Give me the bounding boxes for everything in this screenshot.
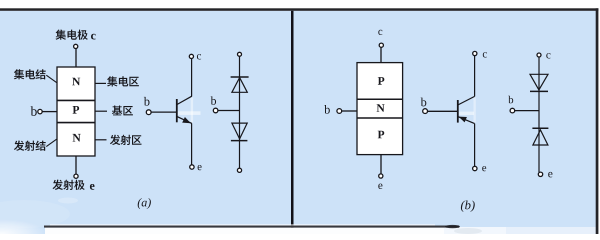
symbol base bar (b) bbox=[457, 100, 459, 123]
region letter N (emitter) bbox=[73, 134, 81, 142]
symbol base wire bbox=[151, 111, 177, 113]
symbol c label (b) bbox=[483, 52, 487, 57]
emitter lead wire bbox=[75, 156, 77, 174]
label e (box b bottom) bbox=[378, 184, 382, 189]
white blob bottom-left corner bbox=[0, 219, 48, 240]
stack base label b bbox=[211, 96, 216, 104]
diode D2 triangle bbox=[232, 123, 247, 139]
集电结 pointer line bbox=[46, 75, 56, 82]
base terminal circle (box b) bbox=[337, 109, 342, 114]
stack top terminal bbox=[238, 52, 242, 56]
faint smudge under emitter label bbox=[58, 198, 78, 204]
label c (box b top) bbox=[378, 30, 382, 35]
stack base terminal (b) bbox=[510, 108, 515, 113]
symbol base label b bbox=[144, 97, 150, 106]
emitter junction line bbox=[57, 122, 95, 124]
jpeg light band (a) vertical bbox=[191, 98, 193, 123]
caption (a) bbox=[138, 198, 151, 209]
diode D4 cathode bar bbox=[532, 127, 548, 129]
label 发射结 bbox=[14, 141, 46, 151]
label 集电结 bbox=[14, 69, 46, 79]
symbol base terminal bbox=[146, 110, 151, 115]
base lead wire (box b) bbox=[342, 110, 357, 112]
collector diagonal bbox=[177, 96, 192, 104]
stack b label (b) bbox=[508, 96, 513, 104]
base label b (box) bbox=[324, 105, 330, 114]
stack base terminal bbox=[213, 108, 218, 113]
jpeg light band (a) horizontal bbox=[178, 111, 201, 115]
stack bottom terminal bbox=[237, 168, 241, 172]
emitter lead wire (b) bbox=[380, 155, 382, 174]
collector terminal (b) bbox=[379, 43, 383, 47]
label 集电极 c bbox=[56, 30, 96, 40]
symbol emitter terminal (b) bbox=[473, 166, 477, 170]
symbol collector terminal (b) bbox=[473, 51, 477, 55]
发射结 pointer line bbox=[46, 139, 56, 146]
stack base wire bbox=[218, 110, 240, 112]
base terminal circle bbox=[38, 109, 42, 113]
symbol b label (b) bbox=[421, 98, 427, 107]
diode D3 cathode bar bbox=[530, 90, 548, 92]
region letter P (collector) bbox=[378, 77, 385, 85]
lower junction line bbox=[357, 117, 403, 119]
bottom rule dark end bbox=[445, 225, 460, 228]
emitter vertical wire bbox=[191, 123, 193, 164]
stack bottom terminal (b) bbox=[538, 172, 542, 176]
collector terminal circle bbox=[74, 44, 78, 48]
emitter diagonal bbox=[177, 116, 192, 123]
symbol e label (b) bbox=[482, 166, 486, 171]
bottom rule highlight bbox=[50, 224, 435, 225]
collector lead wire bbox=[75, 48, 77, 67]
emitter arrowhead (points into base) bbox=[459, 117, 467, 123]
jpeg light band (b) horizontal bbox=[459, 112, 474, 115]
symbol emitter label e bbox=[198, 165, 202, 170]
collector vertical wire (b) bbox=[474, 56, 476, 97]
stack base wire (b) bbox=[515, 110, 539, 112]
emitter arrowhead bbox=[182, 117, 191, 123]
bottom rule bbox=[44, 226, 459, 228]
label 集电区 bbox=[107, 76, 139, 86]
symbol emitter terminal bbox=[190, 165, 194, 169]
base lead wire bbox=[42, 111, 57, 113]
symbol base wire (b) bbox=[428, 110, 458, 112]
region letter P (emitter) bbox=[378, 131, 385, 139]
top border line bbox=[0, 8, 598, 11]
upper junction line bbox=[357, 98, 403, 100]
基区 dash bbox=[95, 110, 107, 112]
symbol collector label c bbox=[197, 54, 201, 59]
faint light band lower-left bbox=[0, 200, 70, 228]
caption (b) bbox=[461, 200, 475, 211]
diode D3 triangle (apex down) bbox=[530, 74, 548, 90]
PNP structure box bbox=[357, 63, 403, 155]
region letter N (base) bbox=[377, 104, 385, 112]
collector lead wire (b) bbox=[380, 47, 382, 62]
label 发射极 e bbox=[53, 180, 95, 190]
NPN structure box bbox=[57, 67, 95, 156]
symbol collector terminal bbox=[189, 54, 193, 58]
emitter terminal (b) bbox=[379, 174, 383, 178]
panel divider bbox=[291, 11, 294, 228]
light wash bottom-right below rule level bbox=[444, 227, 506, 234]
symbol base terminal (b) bbox=[423, 109, 428, 114]
发射区 dash bbox=[95, 139, 107, 141]
emitter terminal circle bbox=[74, 174, 78, 178]
label 基区 bbox=[112, 106, 133, 116]
right border line bbox=[596, 8, 599, 234]
stack top terminal (b) bbox=[537, 53, 541, 57]
collector junction line bbox=[57, 99, 95, 101]
stack e label (b) bbox=[548, 172, 552, 178]
symbol base bar bbox=[176, 99, 178, 122]
emitter diagonal (b) bbox=[458, 117, 475, 124]
collector vertical wire bbox=[191, 59, 193, 97]
diode D4 triangle (apex up) bbox=[533, 130, 548, 145]
jpeg light band (b) vertical bbox=[474, 98, 476, 123]
diode D2 cathode bar bbox=[231, 140, 248, 142]
stack vertical wire (b) bbox=[538, 57, 540, 172]
diode D1 triangle bbox=[232, 78, 247, 93]
集电区 dash bbox=[95, 82, 106, 84]
emitter vertical wire (b) bbox=[474, 124, 476, 167]
collector diagonal (b) bbox=[458, 96, 475, 105]
stack c label (b) bbox=[546, 53, 550, 58]
white strip below bottom rule bbox=[45, 228, 444, 235]
region letter N (collector) bbox=[72, 78, 80, 86]
diode D1 cathode bar bbox=[231, 76, 249, 78]
region letter P (base) bbox=[73, 106, 80, 114]
label 发射区 bbox=[110, 135, 142, 145]
stack vertical wire bbox=[239, 56, 241, 168]
base label b bbox=[31, 106, 37, 116]
